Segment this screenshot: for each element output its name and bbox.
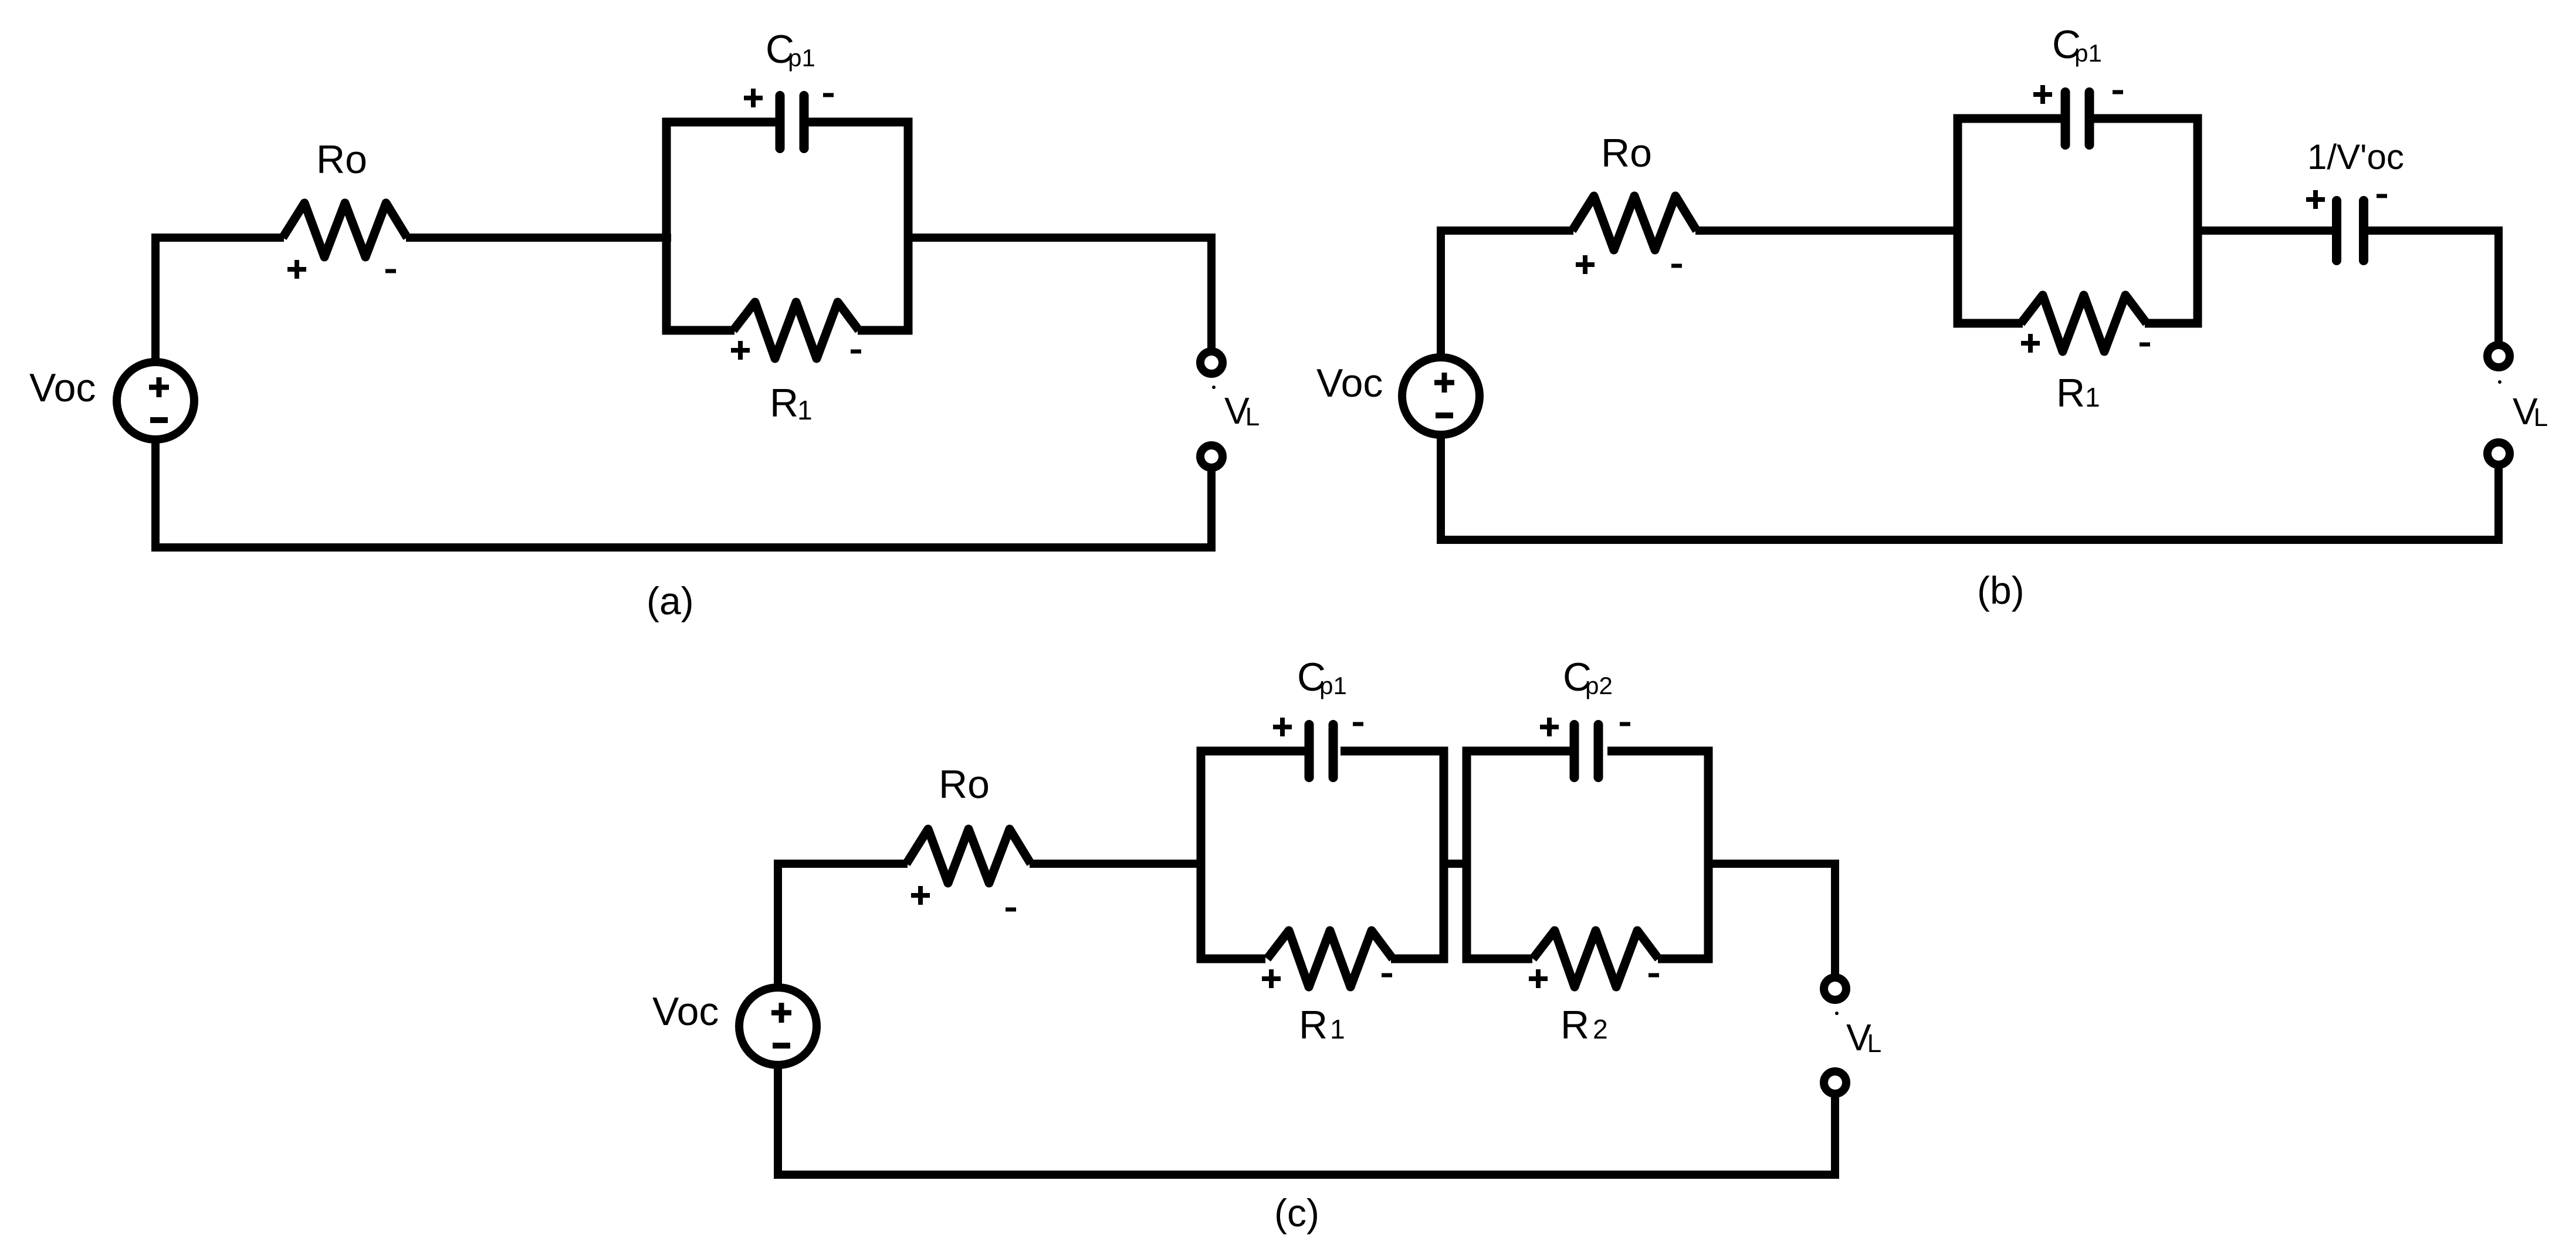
svg-text:R1: R1 — [770, 381, 813, 425]
svg-text:1/V'oc: 1/V'oc — [2307, 137, 2404, 177]
svg-text:(c): (c) — [1274, 1191, 1319, 1235]
svg-text:R1: R1 — [1299, 1003, 1345, 1047]
svg-text:Ro: Ro — [1601, 131, 1652, 175]
svg-text:VL: VL — [2513, 390, 2548, 432]
svg-text:VL: VL — [1224, 390, 1260, 432]
svg-text:Ro: Ro — [316, 137, 367, 182]
svg-text:(a): (a) — [646, 579, 694, 623]
svg-text:Cp1: Cp1 — [2052, 22, 2102, 67]
svg-text:(b): (b) — [1977, 569, 2025, 612]
svg-text:Cp2: Cp2 — [1563, 655, 1613, 699]
svg-text:R2: R2 — [1561, 1003, 1608, 1047]
svg-text:Voc: Voc — [29, 366, 96, 410]
svg-text:Ro: Ro — [939, 762, 990, 807]
svg-text:Cp1: Cp1 — [766, 27, 815, 72]
svg-text:R1: R1 — [2056, 371, 2100, 415]
svg-text:Voc: Voc — [1316, 361, 1383, 405]
svg-text:VL: VL — [1846, 1016, 1881, 1059]
svg-text:Cp1: Cp1 — [1297, 655, 1347, 699]
svg-text:Voc: Voc — [652, 989, 719, 1034]
